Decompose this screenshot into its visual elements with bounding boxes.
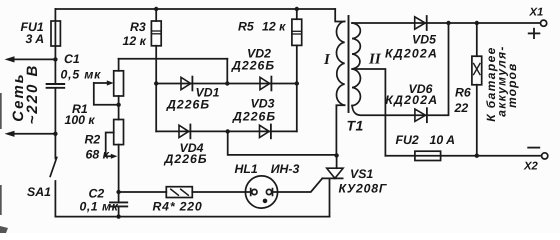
svg-text:КД202А: КД202А [385, 93, 438, 107]
svg-text:КД202А: КД202А [385, 46, 438, 60]
svg-text:Д226Б: Д226Б [164, 152, 208, 166]
svg-text:ИН-3: ИН-3 [271, 162, 300, 176]
svg-text:Д226Б: Д226Б [166, 97, 210, 111]
svg-text:торов: торов [505, 63, 519, 108]
svg-text:Д226Б: Д226Б [231, 59, 275, 73]
svg-text:КУ208Г: КУ208Г [339, 182, 388, 196]
svg-text:X1: X1 [529, 7, 544, 19]
svg-text:12 к: 12 к [123, 34, 147, 48]
svg-text:3 A: 3 A [26, 32, 45, 46]
svg-text:VS1: VS1 [350, 167, 373, 181]
svg-text:R3: R3 [130, 20, 146, 34]
svg-text:II: II [368, 52, 382, 68]
svg-text:0,5 мк: 0,5 мк [61, 68, 102, 82]
svg-text:10 A: 10 A [430, 133, 456, 147]
svg-text:HL1: HL1 [235, 162, 258, 176]
svg-text:Д226Б: Д226Б [232, 109, 276, 123]
svg-text:X2: X2 [523, 160, 539, 172]
svg-text:R2: R2 [85, 133, 101, 147]
svg-text:SA1: SA1 [27, 185, 51, 199]
svg-text:R4* 220: R4* 220 [153, 200, 203, 214]
svg-text:R5: R5 [238, 20, 254, 34]
svg-text:~220 В: ~220 В [24, 64, 41, 125]
svg-text:100 к: 100 к [65, 113, 96, 127]
svg-text:FU2: FU2 [396, 133, 419, 147]
svg-text:12 к: 12 к [262, 20, 286, 34]
svg-text:22: 22 [454, 101, 469, 115]
svg-text:68 к: 68 к [86, 148, 110, 162]
svg-text:0,1 мк: 0,1 мк [80, 200, 119, 214]
svg-text:R6: R6 [455, 86, 471, 100]
svg-text:VD5: VD5 [412, 33, 436, 47]
svg-text:T1: T1 [347, 117, 364, 133]
svg-text:C1: C1 [64, 52, 80, 66]
svg-text:I: I [323, 52, 331, 68]
svg-text:C2: C2 [89, 187, 105, 201]
